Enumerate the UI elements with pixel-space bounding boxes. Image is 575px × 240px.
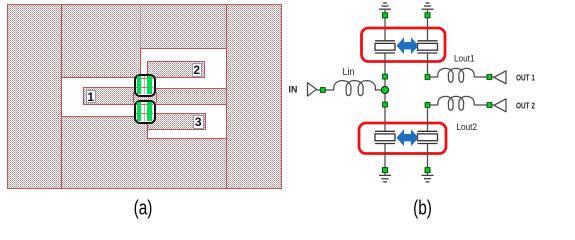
slot for port 1 <box>61 77 141 117</box>
ground bottom left <box>379 175 391 182</box>
wire: bottom-left resonator to ground <box>384 144 386 176</box>
component 2 electrode right <box>147 102 152 121</box>
coupling arrow top (blue double arrow) <box>397 37 419 54</box>
port label 3 <box>193 115 204 129</box>
slot for port 3 <box>147 104 227 139</box>
svg-text:Lout2: Lout2 <box>457 122 478 132</box>
wire: IN port to Lin <box>317 89 335 91</box>
wire: bottom-right resonator stub to OUT2 tap <box>427 105 429 131</box>
node: top-right ground pin <box>425 13 430 18</box>
wire: left vertical rail <box>384 53 386 131</box>
component 1 electrode left <box>137 76 142 95</box>
feed strip of port 3 <box>147 113 206 130</box>
wire: Lout1 to OUT1 port <box>474 76 494 78</box>
ground top left (inverted) <box>379 3 391 9</box>
node: top-left ground pin <box>383 13 388 18</box>
resonator crystal bottom-right <box>418 131 438 143</box>
inductor Lout2 <box>438 96 474 110</box>
highlight box bottom resonator pair <box>359 123 446 154</box>
port IN triangle <box>308 83 317 96</box>
feed strip of port 2 <box>147 61 205 78</box>
port OUT2 triangle <box>494 99 506 112</box>
wire: top-left ground to resonator <box>384 9 386 40</box>
port label 1 <box>86 90 97 103</box>
wire: tap to Lout2 <box>430 104 438 106</box>
node: IN pin <box>320 88 325 93</box>
inductor Lin <box>334 81 385 96</box>
resonator crystal bottom-left <box>375 131 395 143</box>
ground plane (hatched) with outer boundary <box>7 4 282 189</box>
wire: Lout2 to OUT2 port <box>474 104 494 106</box>
feed strip of port 1 <box>83 87 149 105</box>
node: OUT2 port pin <box>487 103 492 108</box>
svg-text:Lin: Lin <box>343 67 355 78</box>
port OUT1 triangle <box>494 71 506 84</box>
node: OUT1 port pin <box>487 75 492 80</box>
svg-text:OUT 2: OUT 2 <box>516 101 535 110</box>
layout boundary line right <box>226 4 227 189</box>
inductor Lout1 <box>438 68 474 82</box>
node: left rail upper pin <box>383 74 388 79</box>
BAW resonator component 2 (bottom chip) <box>134 100 156 124</box>
node: left rail lower pin <box>383 102 388 107</box>
component 2 electrode left <box>137 102 142 121</box>
component 1 seam <box>144 76 145 94</box>
wire: top-right ground to resonator <box>427 9 429 40</box>
node: OUT1 tap pin <box>425 75 430 80</box>
svg-text:(a): (a) <box>134 197 153 219</box>
component 2 red layer lines <box>136 104 153 105</box>
component 1 electrode right <box>147 76 152 95</box>
ground bottom right <box>422 175 434 182</box>
layout boundary line left <box>61 4 62 189</box>
svg-text:Lout1: Lout1 <box>454 54 475 64</box>
svg-text:OUT 1: OUT 1 <box>516 73 535 82</box>
junction node on left rail <box>381 86 388 93</box>
port label 2 <box>192 63 203 77</box>
BAW resonator component 1 (top chip) <box>134 74 156 97</box>
layout seam line center top <box>140 4 141 49</box>
node: OUT2 tap pin <box>425 103 430 108</box>
node: bottom-left ground pin <box>383 168 388 173</box>
component 1 red layer lines <box>136 78 153 79</box>
resonator crystal top-right <box>418 41 438 53</box>
highlight box top resonator pair <box>362 28 446 62</box>
wire: bottom-right resonator to ground <box>427 144 429 176</box>
svg-text:(b): (b) <box>413 197 432 219</box>
resonator chip pad between components <box>133 92 157 103</box>
svg-text:IN: IN <box>289 85 298 95</box>
component 2 seam <box>144 103 145 122</box>
slot for port 2 <box>140 48 227 89</box>
ground top right (inverted) <box>422 3 434 9</box>
coupling arrow bottom (blue double arrow) <box>397 129 419 146</box>
node: bottom-right ground pin <box>425 168 430 173</box>
wire: top-right resonator stub to OUT1 tap <box>427 53 429 77</box>
resonator crystal top-left <box>375 41 395 53</box>
wire: tap to Lout1 <box>430 76 438 78</box>
